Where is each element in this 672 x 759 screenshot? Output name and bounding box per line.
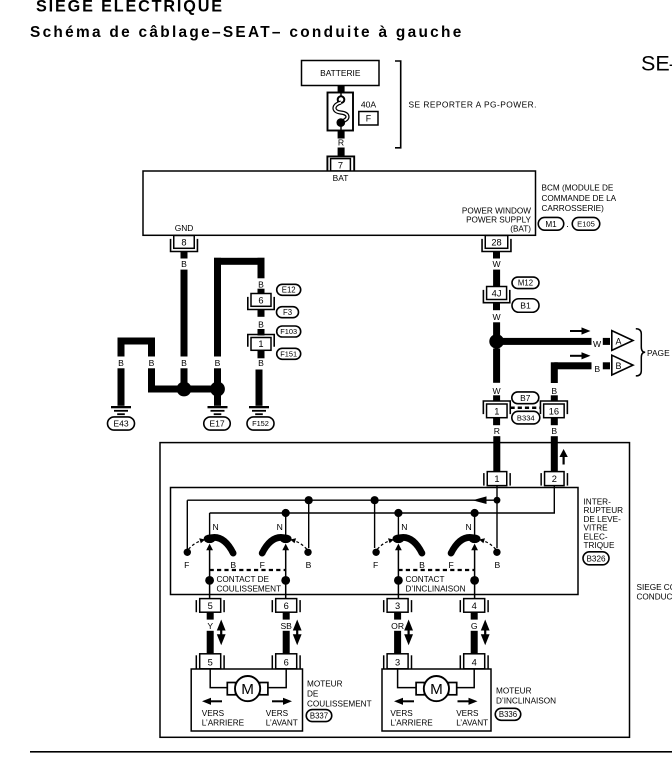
svg-text:6: 6 [258, 296, 263, 306]
svg-text:1: 1 [494, 474, 499, 484]
svg-text:28: 28 [491, 238, 501, 248]
label B [230, 560, 236, 570]
svg-text:B: B [181, 259, 187, 269]
wire label B [149, 358, 155, 368]
wire E43 horizontal [121, 338, 155, 345]
connector B337 oval [306, 710, 332, 722]
wire B pin8 lower [181, 368, 188, 382]
svg-text:MOTEUR: MOTEUR [496, 687, 532, 696]
svg-text:W: W [493, 259, 502, 269]
motor M2 (moteur d'inclinaison) box [382, 669, 491, 731]
flow arrow right [570, 352, 591, 359]
label B [495, 560, 501, 570]
wire label B [215, 358, 221, 368]
pin label BAT [333, 173, 349, 183]
svg-text:SIEGE ELECTRIQUE: SIEGE ELECTRIQUE [36, 0, 224, 16]
node bus B x285.7 [282, 509, 290, 517]
wire bus A to F contact sw3 [374, 500, 376, 548]
svg-text:SE REPORTER A PG-POWER.: SE REPORTER A PG-POWER. [409, 99, 537, 109]
connector 5 (switch output) [196, 599, 224, 613]
node bus B x474.6 [471, 509, 479, 517]
connector B326 oval [583, 552, 609, 565]
label F [373, 560, 378, 570]
wire stub below pin 28 [493, 252, 500, 259]
svg-text:4: 4 [472, 657, 477, 667]
svg-text:F: F [366, 113, 372, 123]
svg-text:E43: E43 [113, 419, 129, 429]
svg-text:ELEC-: ELEC- [584, 532, 608, 541]
connector M12 oval [512, 277, 539, 289]
svg-text:B337: B337 [310, 711, 328, 720]
label VERS L'AVANT [456, 709, 488, 727]
svg-text:B326: B326 [586, 554, 606, 563]
wire bus B to N sw2 [285, 513, 287, 536]
wire stub below pin 5 [207, 612, 214, 619]
svg-text:Y: Y [207, 621, 213, 631]
label BCM (MODULE DE COMMANDE DE LA CARROSSERIE) [542, 184, 617, 214]
wire Y to motor [207, 631, 214, 654]
wire label B [118, 358, 124, 368]
wire stub below pin 3 [394, 612, 401, 619]
svg-text:POWER WINDOW: POWER WINDOW [462, 207, 531, 216]
bracket SE REPORTER [395, 61, 401, 148]
label CONTACT DE COULISSEMENT [217, 575, 282, 594]
svg-text:B1: B1 [520, 301, 531, 311]
switch SW1 (coulissement F) [184, 535, 237, 599]
wire label R [338, 137, 344, 147]
label B [306, 560, 312, 570]
bus line A [187, 500, 497, 549]
svg-text:CONTACT: CONTACT [406, 575, 445, 584]
svg-text:M1: M1 [545, 220, 557, 229]
connector F151 oval [277, 348, 301, 359]
svg-text:DE: DE [307, 689, 319, 698]
svg-text:B: B [215, 358, 221, 368]
wire pin1 drop [496, 486, 498, 497]
svg-text:F151: F151 [280, 349, 297, 358]
label POWER WINDOW POWER SUPPLY (BAT) [462, 207, 532, 234]
wire label B [181, 259, 187, 269]
label CONTACT D'INCLINAISON [406, 575, 466, 594]
svg-text:B: B [181, 358, 187, 368]
switch SW3 (inclinaison F) [372, 535, 425, 599]
svg-text:8: 8 [181, 238, 186, 248]
note SE REPORTER A PG-POWER. [409, 99, 537, 109]
svg-text:GND: GND [175, 223, 194, 233]
svg-text:N: N [465, 522, 471, 532]
connector 4J [483, 287, 509, 303]
junction node [177, 382, 192, 397]
wire label B [551, 386, 557, 396]
svg-text:COULISSEMENT: COULISSEMENT [307, 700, 372, 709]
connector E17 oval [204, 417, 231, 430]
wire E17 branch vertical lower [214, 368, 221, 382]
flow arrow up/down [217, 620, 226, 646]
ground G1 [208, 406, 228, 415]
connector 6 [248, 294, 274, 310]
wire R into seat box [493, 436, 500, 472]
svg-text:F103: F103 [280, 327, 297, 336]
wire bus B to N sw3 [397, 513, 399, 536]
connector B1 oval [512, 299, 539, 313]
svg-text:E12: E12 [282, 286, 296, 295]
svg-text:R: R [494, 426, 500, 436]
wire label R [494, 426, 500, 436]
connector M1 oval [538, 217, 564, 230]
wire label B [258, 279, 264, 289]
label F [260, 560, 265, 570]
wire bus B to N sw4 [474, 513, 476, 536]
wire label G [471, 621, 478, 631]
svg-text:TRIQUE: TRIQUE [584, 541, 615, 550]
off-page connector A [612, 331, 633, 351]
flow arrow up/down [481, 620, 490, 646]
connector 4 (motor) [460, 654, 488, 669]
flow arrow up/down [404, 620, 413, 646]
junction node power [489, 334, 504, 349]
svg-text:INTER-: INTER- [584, 498, 612, 507]
ground G2 [111, 406, 131, 415]
wire stub above connector 6 [258, 289, 265, 295]
svg-text:B: B [149, 358, 155, 368]
connector F3 oval [277, 307, 299, 318]
flow arrow left on bus A [473, 496, 487, 504]
fuse value 40A [361, 99, 377, 109]
wire down to connector 6 [258, 258, 265, 279]
node bus A x308.7 [305, 496, 313, 504]
svg-text:B: B [258, 279, 264, 289]
flow arrow up/down [293, 620, 302, 646]
wire W 28 to 4J [493, 270, 500, 287]
label B [419, 560, 425, 570]
svg-text:RUPTEUR: RUPTEUR [584, 506, 624, 515]
svg-text:7: 7 [338, 161, 343, 171]
svg-text:DE LEVE-: DE LEVE- [584, 515, 622, 524]
wire stub below 4J [493, 303, 500, 310]
page separator line [30, 751, 672, 753]
svg-text:.: . [566, 219, 569, 229]
wire label OR [391, 621, 404, 631]
connector E12 oval [277, 284, 301, 295]
label SIEGE CONDUCTEUR [637, 583, 672, 602]
pin label GND [175, 223, 194, 233]
connector E43 oval [108, 417, 135, 430]
svg-text:N: N [277, 522, 283, 532]
flow arrow up [559, 449, 567, 465]
label N [212, 522, 218, 532]
wire label B [551, 426, 557, 436]
svg-text:B7: B7 [520, 393, 531, 403]
connector B7 oval [512, 392, 539, 404]
svg-text:BCM (MODULE DE: BCM (MODULE DE [542, 184, 614, 193]
label INTERRUPTEUR DE LEVE-VITRE ELECTRIQUE [584, 498, 624, 551]
wire elbow to junction [148, 338, 178, 393]
svg-text:6: 6 [284, 657, 289, 667]
wire battery to fusible link [338, 86, 345, 93]
wire stub below pin 1 [493, 418, 500, 426]
connector 4 (switch output) [460, 599, 488, 613]
svg-text:W: W [493, 386, 502, 396]
wire SB to motor [283, 631, 290, 654]
node bus B x398.4 [394, 509, 402, 517]
wire label W [493, 259, 502, 269]
off-page connector B [612, 355, 633, 375]
svg-text:B336: B336 [499, 710, 517, 719]
svg-text:2: 2 [552, 474, 557, 484]
svg-text:MOTEUR: MOTEUR [307, 679, 343, 688]
wire stub below pin 8 [181, 252, 188, 259]
svg-text:L’AVANT: L’AVANT [266, 718, 298, 727]
svg-text:SIEGE CO: SIEGE CO [637, 583, 672, 592]
svg-text:F: F [448, 560, 453, 570]
label N [465, 522, 471, 532]
direction arrow right [272, 698, 292, 705]
motor M1 (moteur de coulissement) box [191, 669, 302, 731]
svg-text:F152: F152 [252, 419, 269, 428]
connector E105 oval [572, 217, 600, 230]
wire fuse to R [338, 131, 345, 139]
svg-text:F3: F3 [283, 308, 292, 317]
connector 6 (motor) [272, 654, 300, 669]
wire 4J to junction [493, 322, 500, 336]
svg-text:W: W [593, 339, 602, 349]
svg-text:W: W [493, 312, 502, 322]
direction arrow right [458, 698, 478, 705]
BCM U1 box [143, 171, 536, 235]
label VERS L'ARRIERE [202, 709, 245, 727]
wire junction2 to ground [214, 396, 221, 406]
connector 3 (motor) [384, 654, 412, 669]
svg-text:F: F [184, 560, 189, 570]
svg-text:COULISSEMENT: COULISSEMENT [217, 585, 282, 594]
node bus A x374.6 [371, 496, 379, 504]
connector 1 (B7) [483, 401, 510, 418]
wire to ground [256, 370, 263, 406]
svg-text:BAT: BAT [333, 173, 349, 183]
note PAGE [647, 348, 670, 358]
svg-text:COMMANDE DE LA: COMMANDE DE LA [542, 194, 617, 203]
svg-text:POWER SUPPLY: POWER SUPPLY [466, 216, 531, 225]
wire label W [493, 386, 502, 396]
wire stub below connector 6 [258, 310, 265, 317]
mech link dashes pair 1 [210, 569, 286, 571]
junction node 2 [210, 382, 225, 397]
wire stub above connector 1 [258, 329, 265, 336]
svg-text:VERS: VERS [390, 709, 413, 718]
label VERS L'ARRIERE [390, 709, 433, 727]
wire OR to motor [394, 631, 401, 654]
direction arrow left [202, 698, 222, 705]
svg-text:VERS: VERS [202, 709, 225, 718]
wire B into seat box [551, 436, 558, 472]
svg-text:B: B [594, 364, 600, 374]
svg-text:BATTERIE: BATTERIE [320, 68, 361, 78]
svg-text:VERS: VERS [456, 709, 479, 718]
wire label B [258, 319, 264, 329]
ground G3 [249, 406, 269, 415]
svg-text:1: 1 [494, 406, 499, 416]
battery B1 box [302, 61, 380, 86]
svg-text:CONTACT DE: CONTACT DE [217, 575, 270, 584]
svg-text:L’ARRIERE: L’ARRIERE [390, 718, 433, 727]
svg-text:40A: 40A [361, 99, 377, 109]
svg-text:SB: SB [280, 621, 292, 631]
wire label B [181, 358, 187, 368]
node pin1 junction [494, 497, 501, 504]
label N [401, 522, 407, 532]
wire B pin8 upper [181, 270, 188, 357]
wire label B [258, 358, 264, 368]
svg-text:4: 4 [472, 601, 477, 611]
svg-text:B: B [230, 560, 236, 570]
svg-text:OR: OR [391, 621, 404, 631]
wire label W [493, 312, 502, 322]
connector 1 (fuse block) [248, 335, 274, 351]
wire stub above B7 pin 1 [493, 395, 500, 401]
svg-text:R: R [338, 137, 344, 147]
svg-text:B: B [551, 426, 557, 436]
wire R to connector 7 [338, 148, 345, 156]
flow arrow right [570, 327, 591, 334]
title line 1 [36, 0, 224, 16]
svg-text:(BAT): (BAT) [510, 225, 531, 234]
svg-text:VITRE: VITRE [584, 524, 609, 533]
svg-text:B: B [258, 358, 264, 368]
label F [184, 560, 189, 570]
switch SW4 (inclinaison B) [448, 535, 501, 599]
switch SW2 (coulissement B) [259, 535, 312, 599]
svg-text:E17: E17 [209, 419, 225, 429]
svg-text:M: M [430, 681, 443, 698]
wire between junctions [190, 386, 211, 393]
svg-text:D’INCLINAISON: D’INCLINAISON [406, 585, 466, 594]
connector 16 (B7) [540, 401, 567, 418]
connector 28 (PW power supply pin) [482, 236, 511, 252]
svg-text:B: B [306, 560, 312, 570]
svg-text:N: N [401, 522, 407, 532]
svg-text:B: B [118, 358, 124, 368]
svg-text:Schéma de câblage–SEAT– condui: Schéma de câblage–SEAT– conduite à gauch… [30, 24, 464, 41]
svg-text:B: B [551, 386, 557, 396]
svg-text:4J: 4J [492, 289, 502, 299]
svg-text:B: B [495, 560, 501, 570]
svg-text:3: 3 [395, 601, 400, 611]
svg-text:PAGE: PAGE [647, 348, 670, 358]
svg-text:M12: M12 [518, 279, 533, 288]
wire stub to triangle B [603, 362, 610, 369]
connector 7 (BAT pin) [327, 156, 354, 171]
connector B334 oval [512, 411, 540, 424]
svg-text:L’AVANT: L’AVANT [456, 718, 488, 727]
wire bus A to B contact sw2 [308, 500, 310, 548]
svg-text:CONDUC: CONDUC [637, 593, 672, 602]
wire stub below connector 1 [258, 350, 265, 358]
wire E43 vertical lower [118, 368, 125, 406]
wire G to motor [471, 631, 478, 654]
wire pin1 node to B contact sw4 [496, 500, 498, 548]
connector 1 (switch) [484, 472, 510, 486]
wire label SB [280, 621, 292, 631]
svg-text:16: 16 [549, 406, 559, 416]
wire stub below pin 4 [471, 612, 478, 619]
svg-text:B334: B334 [517, 413, 535, 422]
wire junction to pin 1 [493, 349, 500, 383]
direction arrow left [394, 698, 414, 705]
label MOTEUR D'INCLINAISON [496, 687, 556, 706]
mech link dashes pair 2 [398, 569, 474, 571]
svg-text:N: N [212, 522, 218, 532]
wire label Y [207, 621, 213, 631]
wire horizontal to page A [497, 338, 592, 345]
svg-text:L’ARRIERE: L’ARRIERE [202, 718, 245, 727]
svg-text:3: 3 [395, 657, 400, 667]
svg-text:1: 1 [258, 339, 263, 349]
svg-text:5: 5 [208, 657, 213, 667]
svg-text:6: 6 [284, 601, 289, 611]
connector F103 oval [277, 326, 301, 337]
wire E17 branch top horizontal [214, 258, 265, 265]
seat box (SIEGE CONDUCTEUR) [160, 443, 630, 738]
svg-text:B: B [258, 319, 264, 329]
wire label W [593, 339, 602, 349]
window switch box B326 [171, 488, 579, 595]
svg-text:5: 5 [208, 601, 213, 611]
wire corner to page B [551, 362, 592, 383]
svg-text:A: A [615, 336, 621, 346]
label F [448, 560, 453, 570]
wire stub below pin 16 [551, 418, 558, 426]
label MOTEUR DE COULISSEMENT [307, 679, 372, 708]
brace to PAGE [636, 329, 645, 376]
svg-text:E105: E105 [577, 220, 595, 229]
svg-text:SE–: SE– [641, 52, 672, 76]
svg-text:B: B [615, 361, 621, 371]
svg-text:F: F [373, 560, 378, 570]
svg-text:G: G [471, 621, 478, 631]
wire stub to triangle A [603, 338, 610, 345]
svg-text:M: M [241, 681, 254, 698]
wire stub below pin 6 [283, 612, 290, 619]
wire E17 branch vertical upper [214, 258, 221, 357]
section label SE- [641, 52, 672, 76]
fuse letter F box [359, 112, 378, 126]
title line 2 [30, 24, 464, 41]
svg-text:B: B [419, 560, 425, 570]
separator dot [566, 219, 569, 229]
connector 8 (GND pin) [171, 236, 198, 252]
wire label B [594, 364, 600, 374]
wire stub above B7 pin 16 [551, 395, 558, 401]
connector 2 (switch) [541, 472, 567, 486]
connector F152 oval [247, 417, 274, 430]
connector 3 (switch output) [384, 599, 412, 613]
label N [277, 522, 283, 532]
connector 5 (motor) [196, 654, 224, 669]
label VERS L'AVANT [266, 709, 298, 727]
bus line B left drop [209, 513, 211, 536]
link dashes between pins [511, 406, 541, 409]
connector B336 oval [495, 708, 521, 720]
fusible link F (40A) [328, 93, 354, 131]
connector 6 (switch output) [272, 599, 300, 613]
svg-text:D’INCLINAISON: D’INCLINAISON [496, 696, 556, 705]
svg-text:CARROSSERIE): CARROSSERIE) [542, 204, 605, 213]
svg-text:VERS: VERS [266, 709, 289, 718]
svg-text:F: F [260, 560, 265, 570]
wire E43 vertical upper [118, 338, 125, 357]
wire pin2 drop to bus B [210, 486, 555, 513]
